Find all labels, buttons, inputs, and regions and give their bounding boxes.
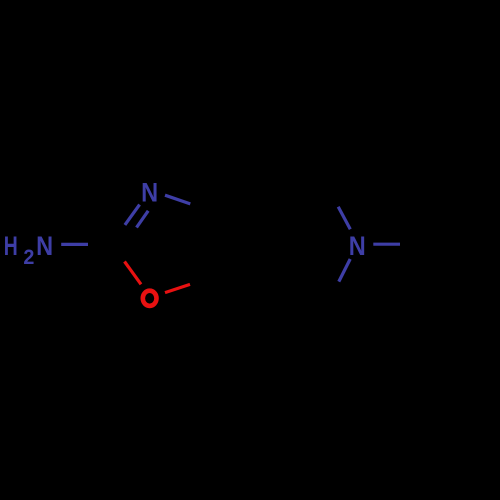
svg-text:H: H (4, 231, 18, 261)
svg-text:N: N (349, 231, 366, 261)
svg-text:2: 2 (23, 245, 34, 269)
svg-text:N: N (36, 231, 53, 261)
svg-text:N: N (141, 178, 158, 208)
